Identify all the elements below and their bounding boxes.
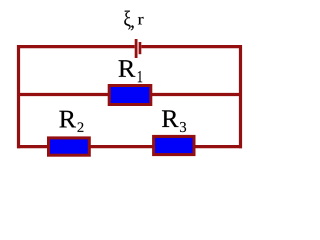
wire: right vertical rail (239, 45, 242, 148)
value label: EMF symbol xi (124, 11, 130, 30)
resistor R1 (109, 86, 151, 105)
wire: top branch, battery positive terminal to top-left corner (17, 45, 135, 48)
battery cell: long plate (135, 39, 138, 58)
value label: comma of "xi, r" (131, 25, 134, 30)
label R2: letter R (59, 111, 76, 128)
label R3: letter R (162, 110, 178, 127)
wire: bottom branch through R2 and R3 (17, 145, 242, 148)
value label: internal resistance r (138, 17, 144, 24)
wire: top branch, battery negative terminal to top-right corner (141, 45, 242, 48)
resistor R3 (154, 136, 194, 154)
wire: middle branch through R1 (17, 93, 242, 96)
label R1: letter R (119, 60, 136, 76)
label R3: subscript 3 (180, 122, 186, 132)
label R2: subscript 2 (77, 122, 83, 132)
battery cell: short plate (139, 42, 142, 54)
wire: left vertical rail (17, 45, 20, 148)
resistor R2 (49, 138, 90, 155)
label R1: subscript 1 (138, 71, 142, 82)
